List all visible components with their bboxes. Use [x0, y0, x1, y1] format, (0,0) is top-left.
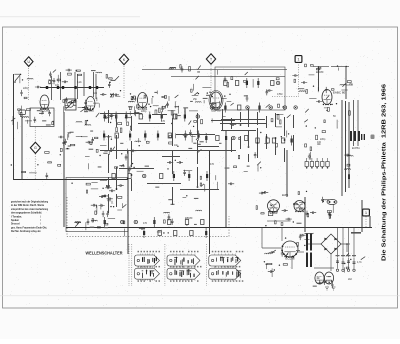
component cluster: tuner bottom components: [63, 97, 99, 112]
small choke blob: [371, 135, 375, 140]
svg-text:2k2: 2k2: [348, 278, 353, 281]
component cluster: left mid wires area: [11, 152, 61, 179]
switch wafer S2 front: [167, 254, 200, 268]
svg-text:Die Plan- Zeichnung vorlag. ab: Die Plan- Zeichnung vorlag. abr.: [11, 229, 41, 233]
svg-text:470: 470: [143, 222, 148, 225]
IF transformer choke winding: [350, 131, 365, 141]
wire below node box 1 right: [365, 217, 367, 228]
marker diamond T: [206, 54, 215, 64]
component row IF sockets: [210, 103, 297, 113]
component cluster: volume control components: [103, 114, 141, 155]
tube V7 EM84 b: [294, 201, 305, 212]
component cluster: output stage components: [281, 234, 310, 257]
dotted wire above diamond G: [34, 128, 36, 143]
component cluster: output grid components: [264, 250, 288, 277]
component cluster: EABC80 stage components: [309, 81, 353, 116]
svg-text:EBF89: EBF89: [316, 71, 324, 74]
component cluster: right lower components: [321, 197, 333, 219]
scan speckle noise: [5, 28, 395, 308]
mains transformer T2 winding: [306, 253, 312, 268]
svg-text:3n9: 3n9: [93, 92, 98, 95]
component cluster: band indicator components: [76, 113, 100, 144]
dotted wire below diamond G: [34, 154, 36, 180]
component cluster: tone box comb row: [71, 180, 123, 193]
component cluster: left lower chains: [58, 132, 71, 149]
component cluster: tone stage components: [146, 115, 203, 154]
component row bus upper: [104, 217, 204, 227]
switch wafer S1 rear: [135, 267, 160, 281]
component cluster: AF coupling components: [114, 153, 143, 179]
power section wiring: [262, 228, 354, 271]
svg-text:Die Schaltung der Philips-Phil: Die Schaltung der Philips-Philetta 12RB …: [382, 84, 388, 261]
component cluster: tuner can internals: [48, 72, 68, 85]
component cluster: stage5 mid components: [152, 89, 198, 118]
wire vertical v1: [13, 74, 15, 180]
bridge rectifier B1: [321, 234, 341, 254]
antenna switch lever: [14, 74, 21, 83]
dotted wire below diamond T: [210, 66, 212, 97]
component cluster: AM osc components: [201, 114, 291, 147]
component cluster: band coil cluster: [20, 106, 30, 117]
wire vertical v3: [63, 112, 65, 227]
svg-text:WELLENSCHALTER: WELLENSCHALTER: [86, 250, 123, 255]
switch wafer S3 rear: [209, 267, 241, 281]
wire main HT bus: [66, 227, 372, 229]
svg-text:EABC 80: EABC 80: [333, 91, 346, 95]
svg-text:25p: 25p: [193, 98, 198, 101]
svg-text:10n: 10n: [174, 144, 179, 147]
component cluster: ratio det components: [304, 109, 337, 160]
component cluster: mains area tiny text: [313, 276, 334, 288]
wire vertical v7: [286, 150, 288, 197]
component cluster: detector components: [292, 74, 314, 93]
svg-text:8,2k: 8,2k: [77, 81, 82, 84]
wire vertical v10: [361, 200, 363, 232]
component row AF1: [112, 171, 208, 181]
component cluster: IF1 internals: [220, 72, 284, 108]
svg-text:470: 470: [210, 163, 215, 166]
switch wafer S3 front: [209, 254, 241, 268]
scan fold line top: [0, 16, 140, 18]
wire AVC bus: [14, 179, 129, 181]
switch wafer pin labels: [138, 251, 244, 282]
label underline 17V: [331, 66, 349, 68]
component value labels: [23, 71, 362, 281]
svg-text:0,5M: 0,5M: [277, 93, 282, 96]
component cluster: volume lower components: [99, 128, 149, 167]
component row osc right: [256, 136, 293, 146]
component cluster: lower mid stage components: [139, 198, 202, 234]
svg-text:4,7k: 4,7k: [357, 261, 362, 264]
tube V4 EBF89: [209, 91, 223, 110]
wire bundle right (heater/HT lines): [319, 66, 359, 196]
node box 1 (right): [363, 209, 370, 216]
cathode resistor box EM84: [268, 211, 273, 215]
svg-text:470: 470: [161, 120, 166, 123]
tube V1 ECC85a: [40, 95, 49, 109]
title text: [382, 84, 388, 261]
wire EM84 bottom: [267, 220, 291, 222]
ground symbols mains: [325, 287, 336, 290]
label underline BK: [313, 66, 329, 68]
component cluster: band switch area components: [60, 132, 102, 170]
wire vertical v9: [369, 216, 371, 227]
wire vertical v6: [225, 130, 227, 227]
dotted wire below diamond K: [123, 66, 125, 98]
component chain detector row: [305, 158, 329, 169]
svg-text:100: 100: [55, 84, 60, 87]
switch tie rod left: [129, 244, 132, 286]
dashed wire to switch: [67, 197, 229, 237]
AGC box outline: [30, 108, 54, 127]
label WELLENSCHALTER: [86, 250, 123, 255]
variable capacitor C1: [65, 99, 76, 110]
switch wafer S1 front: [135, 254, 160, 268]
marker diamond G: [30, 142, 40, 153]
component cluster: antenna input components: [18, 76, 42, 110]
wire bridge left: [306, 243, 321, 245]
tuner section rails: [52, 72, 97, 102]
component row bus lower: [143, 228, 207, 238]
tube V3 ECH81: [138, 93, 148, 108]
switch tie rod right: [205, 244, 207, 286]
component row mid1: [104, 112, 200, 122]
IF stage loop: [215, 67, 285, 110]
wire top bus 1: [142, 69, 287, 71]
wire top bus 2: [171, 76, 285, 78]
switch wafer S2 rear: [167, 267, 200, 281]
svg-text:100: 100: [317, 141, 322, 144]
marker diamond K: [119, 54, 128, 64]
svg-text:25p: 25p: [349, 83, 354, 86]
marker diamond U (antenna): [24, 57, 33, 67]
electrolytic caps row C90-C93: [336, 255, 357, 271]
wire vertical v5: [209, 150, 211, 254]
component cluster: lower left stage components: [101, 198, 126, 237]
svg-text:220p: 220p: [23, 87, 29, 90]
component cluster: IF input components: [194, 76, 220, 110]
tube V9 rectifier: [315, 272, 334, 284]
wire interconnect verticals: [109, 108, 294, 213]
component cluster: ECH81 stage components: [129, 93, 167, 114]
component cluster: osc lower components: [234, 152, 262, 172]
scan fold line bottom: [0, 295, 400, 297]
svg-text:ECH81: ECH81: [352, 147, 360, 150]
node box 1 (top): [295, 56, 302, 63]
svg-text:G: G: [34, 146, 37, 150]
wire vertical v8: [304, 197, 306, 232]
component cluster: top bus labels: [169, 65, 218, 75]
wire vertical v4: [127, 150, 129, 254]
svg-text:T: T: [210, 57, 212, 61]
tone switch box: [66, 178, 128, 232]
wire bridge right: [341, 243, 350, 252]
component cluster: left AGC components: [34, 109, 54, 125]
tube V6 EM84 a: [268, 200, 280, 212]
svg-text:220p: 220p: [141, 110, 147, 113]
component row osc left: [205, 133, 248, 143]
wire interconnect horizontals: [100, 114, 267, 190]
wire vertical v2: [21, 115, 23, 180]
label 220V 5066: [351, 232, 361, 234]
tube type labels: [40, 91, 346, 261]
svg-text:EBF89: EBF89: [185, 217, 193, 220]
component cluster: right bundle components: [344, 154, 353, 179]
component cluster: tone box mid components: [91, 195, 123, 218]
component cluster: osc coil components: [120, 90, 140, 116]
tube V5 EABC80: [322, 90, 332, 105]
tuner mid wire: [40, 86, 104, 89]
component row mid2: [103, 131, 200, 141]
output transformer T1 winding: [305, 234, 314, 251]
svg-text:EM84: EM84: [282, 194, 289, 197]
dotted wire below node box 1 top: [272, 62, 299, 96]
component cluster: EM84 wiring components: [256, 191, 316, 227]
dotted wire below diamond U: [28, 68, 30, 100]
component cluster: feedback network components: [155, 160, 205, 198]
component cluster: mid verticals area components: [200, 168, 234, 190]
tube V8 ECL86 output: [281, 241, 298, 257]
component cluster: coil top labels: [53, 69, 102, 83]
component row IF top: [224, 78, 280, 88]
svg-text:25p: 25p: [121, 165, 126, 168]
switch tie rod mid: [164, 244, 166, 286]
svg-text:220p: 220p: [320, 138, 326, 141]
notes text block: [11, 200, 48, 234]
tube pin dots: [40, 104, 331, 258]
component cluster: left upper bits: [11, 116, 32, 129]
tube V2 ECC85b: [86, 97, 95, 111]
component cluster: heater wiring bottom: [344, 253, 365, 272]
component cluster: tone box lower components: [75, 219, 101, 231]
component cluster: mixer grid components: [100, 74, 120, 97]
pilot lamp: [327, 199, 337, 204]
small box left: [19, 110, 26, 115]
component cluster: top bus labels right: [305, 64, 347, 71]
